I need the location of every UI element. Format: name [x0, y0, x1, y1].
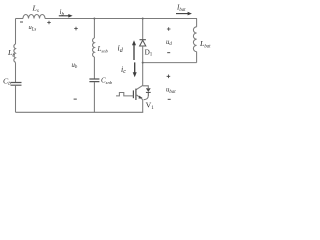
svg-text:ud: ud	[166, 39, 172, 47]
svg-text:Cb: Cb	[3, 77, 11, 87]
svg-text:Ibat: Ibat	[176, 4, 186, 13]
transistor V1 gate bar	[132, 90, 134, 98]
wire diode branch upper	[142, 19, 144, 40]
capacitor C_b	[11, 83, 22, 86]
wire diode branch lower	[142, 46, 144, 86]
wire left rail mid	[15, 62, 17, 82]
label plus u_b	[74, 27, 78, 31]
wire right branch lower	[196, 52, 198, 63]
label minus u_d	[167, 52, 170, 54]
inductor L_bat coil	[193, 27, 196, 52]
arrow I_bat	[176, 13, 188, 15]
transistor V1 emitter arrowhead	[139, 96, 143, 99]
label plus u_d	[167, 27, 171, 31]
wire middle branch upper	[93, 19, 95, 39]
inductor L_s coil	[23, 15, 45, 19]
svg-text:id: id	[118, 44, 124, 54]
capacitor C_snb	[89, 79, 99, 82]
arrow i_b	[59, 15, 69, 17]
transistor V1 collector lead	[136, 85, 143, 89]
arrow i_d (up)	[133, 45, 135, 61]
label plus L_s	[47, 21, 51, 25]
antiparallel diode lower stub	[147, 92, 149, 96]
wire left rail lower	[15, 86, 17, 113]
wire middle branch mid	[93, 57, 95, 79]
wire mid rail to battery	[143, 62, 197, 64]
wire right branch upper	[196, 19, 198, 27]
svg-text:Ls: Ls	[32, 4, 39, 15]
inductor L_b coil	[14, 44, 16, 62]
diode D1	[140, 40, 146, 46]
label plus u_bat	[167, 75, 171, 79]
svg-text:ic: ic	[121, 65, 126, 75]
wire bottom rail	[16, 111, 144, 113]
wire middle branch lower	[93, 82, 95, 112]
label minus u_b	[74, 98, 77, 100]
label minus L_s	[20, 21, 23, 23]
wire left rail upper	[15, 19, 17, 45]
svg-text:ib: ib	[60, 8, 65, 17]
transistor V1 body bar	[135, 89, 137, 100]
svg-text:V1: V1	[146, 101, 155, 111]
diode antiparallel loop	[143, 86, 149, 100]
svg-text:D1: D1	[145, 48, 153, 57]
wire top rail left	[16, 18, 24, 20]
label minus u_bat	[168, 98, 171, 100]
antiparallel diode triangle	[146, 88, 151, 92]
junction dot middle branch	[93, 18, 95, 20]
arrow i_c (down)	[134, 62, 136, 72]
transistor V1 emitter lead	[136, 94, 143, 99]
svg-text:ub: ub	[72, 62, 78, 70]
svg-text:Lsnb: Lsnb	[97, 45, 109, 53]
svg-text:ubat: ubat	[166, 87, 176, 95]
junction dot mid rail	[142, 62, 144, 64]
junction dot diode branch	[142, 18, 144, 20]
wire top rail right	[45, 18, 197, 20]
antiparallel diode bar	[146, 91, 151, 93]
inductor L_snb coil	[93, 38, 95, 57]
svg-text:Csnb: Csnb	[101, 77, 113, 85]
gate pulse symbol	[116, 93, 133, 96]
svg-text:uLs: uLs	[29, 24, 37, 32]
transistor V1 emitter wire	[142, 100, 144, 113]
svg-text:Lbat: Lbat	[199, 39, 211, 49]
